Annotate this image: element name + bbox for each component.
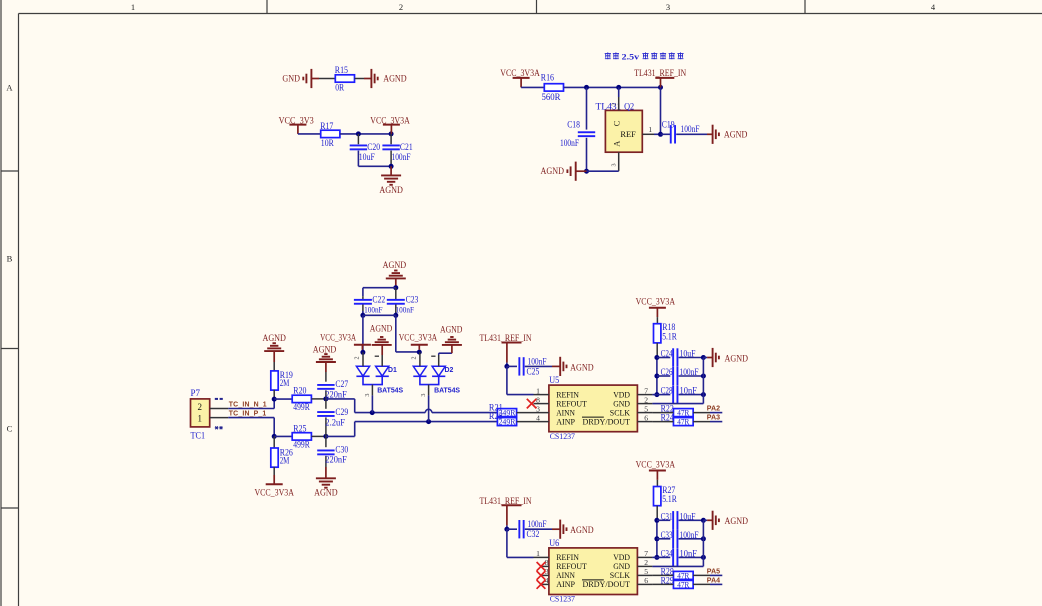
svg-text:499R: 499R <box>293 403 310 413</box>
svg-text:BAT54S: BAT54S <box>434 388 460 395</box>
svg-text:C27: C27 <box>335 380 348 390</box>
svg-text:R25: R25 <box>293 424 306 434</box>
svg-text:10nF: 10nF <box>680 550 697 560</box>
svg-text:2: 2 <box>354 356 361 359</box>
svg-text:AGND: AGND <box>383 261 407 271</box>
svg-text:GND: GND <box>282 75 300 85</box>
svg-text:47R: 47R <box>677 572 689 581</box>
svg-text:C: C <box>7 424 13 434</box>
svg-text:AGND: AGND <box>570 363 594 373</box>
svg-text:5.1R: 5.1R <box>662 495 677 505</box>
svg-text:C29: C29 <box>335 408 348 418</box>
svg-text:2: 2 <box>410 356 417 359</box>
svg-text:249R: 249R <box>499 418 517 427</box>
svg-text:2: 2 <box>611 103 618 106</box>
svg-text:10uF: 10uF <box>680 350 696 360</box>
svg-text:VCC_3V3A: VCC_3V3A <box>399 333 438 343</box>
svg-text:AGND: AGND <box>570 526 594 536</box>
svg-text:47R: 47R <box>677 409 689 418</box>
svg-text:100nF: 100nF <box>364 305 383 315</box>
svg-text:VCC_3V3A: VCC_3V3A <box>320 333 356 343</box>
svg-text:C30: C30 <box>335 446 348 456</box>
svg-text:1: 1 <box>198 413 203 423</box>
svg-text:DRDY/DOUT: DRDY/DOUT <box>583 579 631 589</box>
svg-text:AINP: AINP <box>556 579 575 589</box>
svg-text:499R: 499R <box>293 441 310 451</box>
svg-text:100nF: 100nF <box>560 139 579 149</box>
svg-text:VCC_3V3A: VCC_3V3A <box>636 461 676 471</box>
svg-text:AINP: AINP <box>556 416 575 426</box>
svg-text:PA4: PA4 <box>707 576 720 584</box>
svg-text:10uF: 10uF <box>359 153 375 163</box>
svg-text:100nF: 100nF <box>528 357 547 367</box>
svg-text:3: 3 <box>364 394 371 397</box>
svg-text:A: A <box>613 141 622 147</box>
svg-text:C21: C21 <box>400 143 413 153</box>
svg-text:100nF: 100nF <box>681 125 700 135</box>
svg-text:C28: C28 <box>661 387 673 397</box>
svg-text:3: 3 <box>611 163 618 166</box>
svg-text:TC_IN_P_1: TC_IN_P_1 <box>229 411 267 418</box>
svg-text:220nF: 220nF <box>325 455 347 465</box>
svg-text:TL431: TL431 <box>596 102 622 112</box>
svg-text:C31: C31 <box>661 512 673 522</box>
svg-text:100nF: 100nF <box>396 305 415 315</box>
svg-text:2: 2 <box>198 402 203 412</box>
svg-text:47R: 47R <box>677 581 689 590</box>
svg-text:R17: R17 <box>320 122 333 132</box>
svg-text:10nF: 10nF <box>680 387 697 397</box>
svg-text:AGND: AGND <box>725 517 749 527</box>
svg-text:AGND: AGND <box>725 354 749 364</box>
svg-text:3: 3 <box>666 2 670 12</box>
svg-text:1: 1 <box>648 125 652 134</box>
svg-text:2M: 2M <box>280 379 290 389</box>
svg-text:CS1237: CS1237 <box>550 594 576 604</box>
svg-text:DRDY/DOUT: DRDY/DOUT <box>583 416 631 426</box>
svg-text:1: 1 <box>131 2 135 12</box>
svg-text:AGND: AGND <box>541 167 565 177</box>
svg-text:AGND: AGND <box>724 131 748 141</box>
svg-text:BAT54S: BAT54S <box>377 388 403 395</box>
svg-text:2.5v: 2.5v <box>622 52 640 62</box>
svg-text:R15: R15 <box>335 66 348 76</box>
svg-text:100nF: 100nF <box>392 153 411 163</box>
svg-text:TC_IN_N_1: TC_IN_N_1 <box>229 401 267 408</box>
svg-text:C26: C26 <box>661 368 673 378</box>
svg-text:Q2: Q2 <box>624 102 634 112</box>
svg-text:P7: P7 <box>191 389 201 399</box>
svg-text:100nF: 100nF <box>528 520 547 530</box>
svg-text:2: 2 <box>399 2 403 12</box>
svg-text:10uF: 10uF <box>680 512 696 522</box>
svg-text:C33: C33 <box>661 531 673 541</box>
svg-text:PA3: PA3 <box>707 414 720 422</box>
svg-text:R20: R20 <box>293 387 306 397</box>
svg-text:10R: 10R <box>321 139 335 149</box>
svg-text:C24: C24 <box>661 350 673 360</box>
svg-text:VCC_3V3A: VCC_3V3A <box>636 298 676 308</box>
svg-text:100nF: 100nF <box>680 531 699 541</box>
svg-text:CS1237: CS1237 <box>550 431 576 441</box>
svg-text:C34: C34 <box>661 550 673 560</box>
svg-text:3: 3 <box>420 394 427 397</box>
svg-text:TC1: TC1 <box>191 431 206 441</box>
svg-text:R16: R16 <box>541 73 554 83</box>
svg-text:A: A <box>6 83 13 93</box>
svg-text:C32: C32 <box>527 530 540 540</box>
svg-text:REF: REF <box>620 129 636 139</box>
svg-text:C25: C25 <box>527 367 540 377</box>
svg-text:C20: C20 <box>367 143 380 153</box>
svg-text:D1: D1 <box>388 367 397 374</box>
svg-text:C: C <box>613 120 622 126</box>
svg-text:47R: 47R <box>677 418 689 427</box>
svg-text:560R: 560R <box>542 93 562 103</box>
svg-text:AGND: AGND <box>379 186 403 196</box>
svg-text:100nF: 100nF <box>680 368 699 378</box>
svg-text:5.1R: 5.1R <box>662 332 677 342</box>
svg-text:PA5: PA5 <box>707 567 720 575</box>
svg-text:VCC_3V3A: VCC_3V3A <box>254 489 294 499</box>
svg-text:C19: C19 <box>662 120 675 130</box>
svg-text:C18: C18 <box>567 120 580 130</box>
svg-text:D2: D2 <box>445 367 454 374</box>
svg-text:B: B <box>7 254 13 264</box>
svg-text:2M: 2M <box>280 456 290 466</box>
svg-text:PA2: PA2 <box>707 405 720 413</box>
svg-text:AGND: AGND <box>440 324 463 334</box>
svg-text:0R: 0R <box>335 83 345 93</box>
svg-text:AGND: AGND <box>383 75 407 85</box>
svg-text:2.2uF: 2.2uF <box>325 418 345 428</box>
svg-text:AGND: AGND <box>370 323 393 333</box>
svg-text:AGND: AGND <box>314 488 338 498</box>
